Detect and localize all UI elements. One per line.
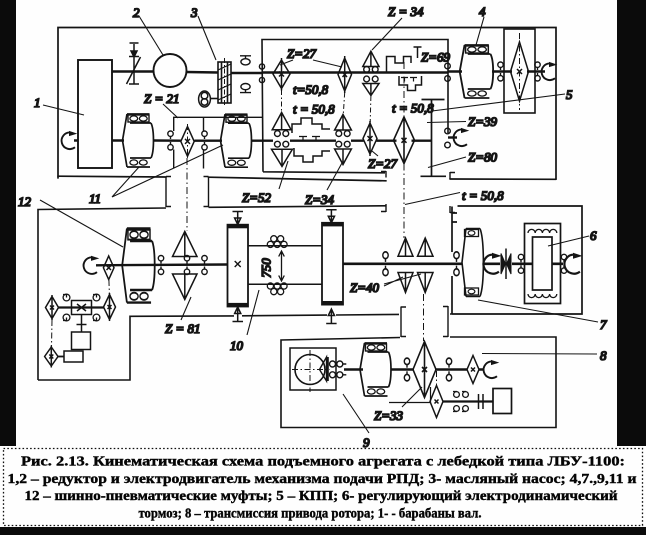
gear Z=34 lower lower cone xyxy=(335,149,352,165)
pump unit left diamond xyxy=(46,295,59,320)
svg-text:Z=27: Z=27 xyxy=(287,46,317,61)
leaders 11 xyxy=(112,145,223,197)
short output stub shaft xyxy=(448,136,457,138)
clutch 7 xyxy=(462,229,483,297)
wall bolts right of KPP input xyxy=(445,63,451,81)
pump unit right diamond xyxy=(104,293,116,321)
wall circles at gearbox edge xyxy=(259,64,264,83)
reducer 1 body xyxy=(78,60,112,168)
pump drive down link xyxy=(77,315,87,332)
vertical channel B walls xyxy=(381,171,455,213)
svg-text:Z=33: Z=33 xyxy=(374,408,404,423)
svg-text:6: 6 xyxy=(590,228,597,243)
rotary bevel cone xyxy=(320,357,327,381)
leader Z=39 xyxy=(427,122,466,123)
leaders Z=27 xyxy=(280,60,342,67)
clutch 4 xyxy=(460,45,493,98)
oil pump 3 body xyxy=(218,58,231,107)
Z=21 support bracket xyxy=(174,117,262,168)
dog clutch profile mid upper xyxy=(292,118,330,133)
bolt pair right of brake xyxy=(561,254,566,273)
rotor drive shaft xyxy=(344,368,484,370)
pump unit shaft xyxy=(59,306,104,308)
lower unit box boundary xyxy=(38,206,452,380)
svg-text:Z=34: Z=34 xyxy=(305,192,335,207)
drawworks drum right xyxy=(322,223,343,305)
brake rotor xyxy=(533,237,553,290)
leader 10 xyxy=(247,290,259,335)
bolt pairs on shaft after clutch 12 xyxy=(158,256,163,275)
svg-text:5: 5 xyxy=(566,87,573,102)
dog clutch profile mid lower xyxy=(294,148,330,162)
clutch 11 left xyxy=(123,114,154,167)
bearing above shaft on pump line xyxy=(240,56,251,65)
svg-text:9: 9 xyxy=(363,435,370,450)
svg-text:t = 50,8: t = 50,8 xyxy=(392,101,434,116)
vertical shaft B centerline xyxy=(403,62,405,238)
svg-text:4: 4 xyxy=(479,4,486,19)
chain drive lower strand xyxy=(248,283,322,285)
sliding gear circles xyxy=(364,67,378,82)
Z=21 axis centerline xyxy=(187,124,189,158)
leader Z=34 bottom xyxy=(327,163,342,190)
vertical shaft C centerline xyxy=(423,294,425,341)
bolt pair right of bevels xyxy=(454,252,459,276)
aux drive centerline xyxy=(436,371,438,386)
leader Z=52 xyxy=(279,161,288,189)
internal gear mark Z=69 xyxy=(414,47,422,58)
dog clutch profile upper xyxy=(387,57,412,73)
leader 9 xyxy=(343,394,369,433)
Z=34 sleeve circles xyxy=(336,131,350,147)
bolt pair left of pinion housing xyxy=(498,62,503,81)
rotation arrow mid right xyxy=(454,128,470,146)
leader 3 xyxy=(198,16,216,60)
span arrow 750 xyxy=(279,251,285,281)
ring gear Z=80 band xyxy=(421,100,447,177)
caption frame xyxy=(4,449,643,526)
svg-text:750: 750 xyxy=(259,258,274,278)
link diamond to small rect xyxy=(58,356,64,358)
svg-text:t=50,8: t=50,8 xyxy=(293,82,329,97)
chain drive upper strand xyxy=(248,245,322,247)
leaders Z=40 xyxy=(384,274,421,286)
spline cluster left xyxy=(330,361,347,378)
svg-text:12: 12 xyxy=(18,194,32,209)
bolt pair right of Z=33 xyxy=(446,358,451,381)
clutch 12 xyxy=(122,228,155,302)
leader Z=34 top xyxy=(372,18,402,50)
svg-text:Z=52: Z=52 xyxy=(242,190,272,205)
pump unit satellites xyxy=(63,294,100,321)
right black margin bar xyxy=(617,0,646,446)
bolt pair left of bevels xyxy=(383,252,388,276)
gear Z=27 input diamond xyxy=(273,58,290,91)
vertical link upper diamond to pump diamond xyxy=(108,280,111,294)
gear Z=52 upper cone xyxy=(272,113,291,130)
rotation arrow lower-left shaft xyxy=(62,131,78,149)
small pump rect xyxy=(64,351,83,362)
pinion housing rect xyxy=(504,29,535,113)
svg-text:11: 11 xyxy=(89,191,101,206)
bolt pair left of Z=33 xyxy=(404,358,409,381)
stator coils bottom xyxy=(528,294,557,298)
svg-text:Z = 21: Z = 21 xyxy=(144,91,180,106)
bolt pair left of Z=21 xyxy=(168,131,173,150)
leader Z=81 xyxy=(181,297,191,320)
small bevel diamond box 12 xyxy=(103,256,114,280)
leader 5 xyxy=(432,94,565,111)
leader 4 xyxy=(476,17,484,45)
svg-text:2: 2 xyxy=(133,5,140,20)
rotation arrow top right xyxy=(542,62,558,80)
rotary table housing xyxy=(290,348,336,390)
KPP input shaft xyxy=(262,71,448,73)
bearing below shaft on pump line xyxy=(240,84,251,93)
rotor drive shaft right of drums xyxy=(343,262,563,265)
Z=52 sleeve circles xyxy=(275,131,289,147)
bolt pair right of pinion housing xyxy=(535,62,540,81)
svg-text:Z=27: Z=27 xyxy=(368,156,398,171)
svg-text:Рис. 2.13. Кинематическая схем: Рис. 2.13. Кинематическая схема подъемно… xyxy=(21,454,625,469)
gear Z=33 diamond xyxy=(413,342,436,398)
rotation arrow in box 6 left xyxy=(483,253,501,274)
pump to gear-pump link xyxy=(211,98,218,100)
svg-text:3: 3 xyxy=(190,5,198,20)
svg-text:Z=39: Z=39 xyxy=(468,114,498,129)
leader 6 xyxy=(548,236,589,246)
gear Z=52 lower cone xyxy=(272,149,293,166)
rotation arrow box 6 right xyxy=(564,253,582,274)
pump body rect xyxy=(72,332,91,350)
leader 7 xyxy=(478,300,598,322)
leader Z=33 xyxy=(402,387,422,407)
bolt pair right of Z=21 xyxy=(202,131,207,150)
bevel gear Z=81 upper cone xyxy=(173,232,198,257)
wheel crosshair xyxy=(292,350,330,392)
svg-text:7: 7 xyxy=(600,317,607,332)
svg-text:Z=69: Z=69 xyxy=(421,50,451,65)
chain links lower xyxy=(267,283,287,295)
dog clutch profile lower xyxy=(399,76,422,91)
svg-text:t = 50,8: t = 50,8 xyxy=(462,188,504,203)
caption text xyxy=(8,454,637,521)
svg-text:1: 1 xyxy=(34,95,41,110)
top unit box xyxy=(58,28,556,180)
drum left key mark xyxy=(235,261,241,267)
electric motor 2 xyxy=(154,54,187,87)
gear Z=39 diamond xyxy=(394,117,415,164)
leader Z=80 xyxy=(428,157,466,168)
vertical channel C walls xyxy=(401,306,448,337)
leader 8 xyxy=(482,353,597,356)
left black margin bar xyxy=(0,0,16,446)
svg-text:t = 50,8: t = 50,8 xyxy=(293,102,335,117)
coupling cones xyxy=(505,249,507,280)
brake unit box 6 outline xyxy=(452,206,582,314)
left diamond down centerline xyxy=(51,320,54,347)
shaft through clutch 4 xyxy=(448,70,545,72)
svg-text:Z = 34: Z = 34 xyxy=(388,4,424,19)
tall pinion diamond xyxy=(511,42,529,101)
stator coils top xyxy=(528,229,557,233)
bevel Z=40 left upper cone xyxy=(398,238,413,256)
chain links upper xyxy=(267,236,287,248)
leader 2 xyxy=(139,16,163,55)
output small diamond xyxy=(467,356,479,384)
svg-text:тормоз; 8 – трансмиссия привод: тормоз; 8 – трансмиссия привода ротора; … xyxy=(139,506,482,521)
leader 1 xyxy=(43,105,84,115)
rotary table wheel xyxy=(295,355,325,385)
bottom black margin bar xyxy=(0,527,646,535)
gear Z=27 lower diamond xyxy=(363,121,377,156)
bevel Z=40 right lower cone xyxy=(418,273,434,293)
sliding gear Z=34 upper cone xyxy=(363,51,379,66)
leader Z=27 bottom xyxy=(372,151,378,156)
svg-text:1,2 – редуктор и электродвигат: 1,2 – редуктор и электродвигатель механи… xyxy=(8,471,637,486)
Z=33 bracket xyxy=(389,387,431,403)
aux spline cluster xyxy=(453,392,468,412)
gear pump symbol 8-shape xyxy=(199,91,211,107)
wall bolts lower right xyxy=(445,128,451,148)
spline marks lower shaft right xyxy=(401,78,417,82)
rotor drive box outline xyxy=(281,337,556,428)
bevel Z=40 left lower cone xyxy=(398,273,413,293)
drum right clamp arrows xyxy=(326,210,336,324)
leader t=50,8 fourth xyxy=(405,193,460,205)
svg-text:12 – шинно-пневматические муфт: 12 – шинно-пневматические муфты; 5 – КПП… xyxy=(25,488,618,503)
aux coupling bars xyxy=(479,394,484,409)
svg-text:Z=80: Z=80 xyxy=(468,150,498,165)
bolt pair left of brake xyxy=(518,254,523,273)
gearbox KPP housing xyxy=(262,40,448,173)
sliding gear lower cone xyxy=(363,84,379,96)
svg-text:Z = 81: Z = 81 xyxy=(165,321,201,336)
bevel gear Z=81 lower cone xyxy=(173,274,198,300)
svg-text:10: 10 xyxy=(230,338,244,353)
brake on motor shaft xyxy=(127,43,141,84)
vertical channel A walls xyxy=(166,177,209,208)
spline marks mid xyxy=(299,137,320,142)
clutch 11 right xyxy=(221,114,252,167)
pinion centerline xyxy=(519,33,521,110)
lower main shaft xyxy=(74,139,262,142)
drum left clamp arrows xyxy=(233,212,244,322)
leader 12 xyxy=(40,200,123,247)
rotation arrow box 12 xyxy=(84,256,100,274)
svg-text:8: 8 xyxy=(600,348,607,363)
gear Z=21 diamond xyxy=(181,127,194,157)
lower-left small diamond xyxy=(45,346,58,368)
drawworks drum left xyxy=(228,225,249,307)
leader Z=21 xyxy=(163,104,178,118)
box 12 input shaft xyxy=(96,263,228,266)
pump unit center block xyxy=(72,301,92,315)
gear axis link first pair xyxy=(281,90,283,112)
rotation arrow rotor output xyxy=(484,360,500,378)
gear axis link second pair xyxy=(343,93,344,115)
aux device box xyxy=(493,389,512,414)
aux drive shaft xyxy=(443,400,493,402)
clutch 9 xyxy=(360,343,391,396)
svg-text:Z=40: Z=40 xyxy=(350,280,380,295)
electrodynamic brake 6 stator xyxy=(525,224,561,304)
bevel Z=40 right upper cone xyxy=(418,238,434,256)
gear axis link third pair xyxy=(369,96,372,122)
vertical shaft A centerline xyxy=(186,158,188,231)
second input diamond xyxy=(338,56,352,93)
gear Z=34 lower upper cone xyxy=(335,115,352,131)
aux drive diamond xyxy=(430,386,443,418)
KPP lower shaft xyxy=(262,139,431,141)
motor shaft xyxy=(112,72,262,74)
